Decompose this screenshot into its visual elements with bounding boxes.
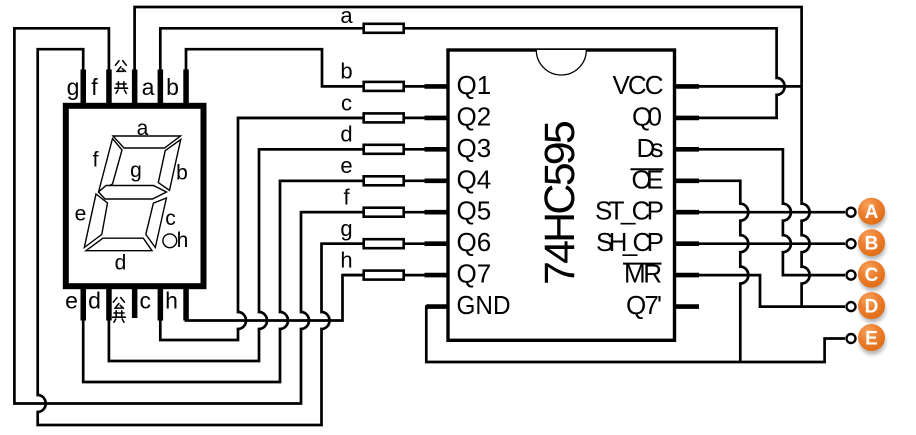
badge D bbox=[858, 292, 885, 319]
resistor leads left column bbox=[238, 118, 364, 275]
wire segment f : display pin f, left rail, bottom, up to resistor f bbox=[14, 28, 363, 403]
resistor a bbox=[364, 24, 404, 33]
resistor c bbox=[364, 113, 404, 122]
svg-text:h: h bbox=[165, 288, 178, 314]
badge E shadow bbox=[860, 329, 886, 355]
svg-text:SH_CP: SH_CP bbox=[596, 227, 664, 257]
svg-text:VCC: VCC bbox=[613, 70, 664, 100]
svg-text:Q6: Q6 bbox=[457, 227, 492, 257]
segment a bbox=[113, 136, 181, 148]
pin MR stub bbox=[676, 273, 700, 278]
svg-text:c: c bbox=[341, 90, 352, 115]
svg-text:Q1: Q1 bbox=[457, 70, 492, 100]
resistor g bbox=[364, 239, 404, 248]
display pin f (top) bbox=[106, 70, 112, 106]
display pin a (top) bbox=[158, 70, 164, 106]
svg-text:b: b bbox=[340, 59, 352, 84]
svg-text:Q0: Q0 bbox=[632, 101, 662, 131]
svg-text:E: E bbox=[865, 329, 878, 350]
svg-text:C: C bbox=[865, 265, 879, 286]
svg-text:e: e bbox=[340, 153, 352, 178]
pin Q6 stub bbox=[425, 241, 448, 246]
display pin b (top) bbox=[183, 70, 189, 106]
badge B shadow bbox=[860, 234, 886, 260]
pin Q7 stub bbox=[425, 273, 448, 278]
pin VCC stub bbox=[676, 84, 700, 89]
badge C shadow bbox=[860, 265, 886, 291]
display pin 公共 (top) bbox=[132, 70, 138, 106]
svg-text:ST_CP: ST_CP bbox=[595, 196, 664, 226]
overline OE bbox=[631, 168, 664, 170]
label 公 (bottom) bbox=[113, 298, 124, 309]
wire ST_CP pin to terminal A bbox=[697, 211, 845, 214]
svg-text:b: b bbox=[176, 162, 188, 185]
resistor h bbox=[364, 271, 404, 280]
segment f bbox=[99, 139, 122, 192]
pin GND stub bbox=[426, 304, 447, 309]
wire segment g : display pin g, left rail, bottom, up to resistor g bbox=[38, 49, 364, 425]
svg-text:b: b bbox=[166, 74, 179, 100]
terminal node B bbox=[847, 239, 856, 248]
terminal node E bbox=[847, 334, 856, 343]
wire segment b : display pin b to resistor b bbox=[186, 49, 364, 104]
svg-text:c: c bbox=[165, 207, 176, 230]
terminal node D bbox=[847, 302, 856, 311]
resistors a-h bodies bbox=[364, 24, 404, 280]
display pin g (top) bbox=[81, 70, 87, 106]
wire GND pin under IC to terminal E bbox=[426, 307, 845, 362]
display pin e (bottom) bbox=[81, 287, 87, 321]
terminal node A bbox=[847, 208, 856, 217]
pin SH_CP stub bbox=[676, 241, 700, 246]
svg-text:a: a bbox=[137, 117, 149, 140]
wire segment e : display pin e to resistor e bbox=[83, 181, 364, 382]
display pin 公共 (bottom, unconnected) bbox=[132, 287, 138, 318]
segment e bbox=[84, 194, 107, 248]
segment g bbox=[99, 186, 167, 200]
pin Q5 stub bbox=[425, 210, 448, 215]
svg-text:f: f bbox=[343, 185, 350, 210]
seven-segment display DS1 body bbox=[66, 106, 204, 286]
pin Q1 stub bbox=[425, 84, 448, 89]
wire OE pin down to GND rail bbox=[697, 181, 748, 362]
segment b bbox=[158, 140, 180, 191]
pin Q2 stub bbox=[425, 116, 448, 121]
svg-text:h: h bbox=[177, 229, 189, 252]
label 共 (top) bbox=[115, 82, 128, 94]
wire 公共(common) to VCC net : pin top, top rail, right vertical down to D row bbox=[135, 7, 810, 307]
resistor f bbox=[364, 208, 404, 217]
svg-text:D: D bbox=[865, 297, 879, 318]
svg-text:Q3: Q3 bbox=[457, 133, 492, 163]
svg-text:74HC595: 74HC595 bbox=[536, 121, 584, 285]
wire segment h : display pin h to resistor h bbox=[186, 275, 364, 320]
svg-text:a: a bbox=[340, 3, 353, 28]
pin ST_CP stub bbox=[676, 210, 700, 215]
badge E bbox=[858, 324, 885, 351]
wire SH_CP pin to terminal B bbox=[697, 242, 845, 245]
pin Q3 stub bbox=[425, 147, 448, 152]
display pin d (bottom) bbox=[106, 287, 112, 321]
resistor d bbox=[364, 145, 404, 154]
svg-text:h: h bbox=[340, 248, 352, 273]
svg-text:d: d bbox=[340, 122, 352, 147]
pin Q4 stub bbox=[425, 179, 448, 184]
badge A shadow bbox=[860, 202, 886, 228]
svg-text:Q5: Q5 bbox=[457, 196, 492, 226]
resistor b bbox=[364, 82, 404, 91]
badge A bbox=[858, 198, 885, 225]
badge C bbox=[858, 261, 885, 288]
display pin c (bottom) bbox=[158, 287, 164, 321]
segment d bbox=[86, 238, 152, 251]
wire segment c : display pin c to resistor c bbox=[160, 118, 363, 340]
resistor leads right column to IC stubs bbox=[405, 86, 428, 275]
segment c bbox=[146, 198, 167, 248]
label 公 (top) bbox=[115, 61, 126, 72]
svg-text:g: g bbox=[340, 216, 352, 241]
svg-text:f: f bbox=[93, 149, 99, 172]
svg-text:Q2: Q2 bbox=[457, 101, 492, 131]
svg-text:e: e bbox=[65, 288, 78, 314]
wire segment a : display pin a, resistor a, down to Q0 bbox=[160, 28, 784, 118]
svg-text:A: A bbox=[865, 202, 879, 223]
wire Ds pin to terminal C bbox=[697, 149, 845, 275]
segment h decimal point bbox=[163, 234, 177, 248]
pin OE stub bbox=[676, 179, 700, 184]
svg-text:a: a bbox=[142, 74, 155, 100]
wire segment d : display pin d to resistor d bbox=[109, 149, 364, 361]
pin Q0 stub bbox=[676, 116, 700, 121]
IC U1 74HC595 body bbox=[448, 50, 675, 340]
overline MR bbox=[623, 263, 662, 265]
resistor e bbox=[364, 176, 404, 185]
svg-text:c: c bbox=[139, 288, 151, 314]
wire MR pin to terminal D bbox=[697, 275, 845, 307]
svg-text:Q7': Q7' bbox=[626, 290, 662, 320]
terminal circles bbox=[847, 208, 856, 343]
svg-text:g: g bbox=[130, 159, 142, 182]
svg-text:B: B bbox=[865, 234, 879, 255]
svg-text:GND: GND bbox=[457, 290, 511, 320]
svg-text:d: d bbox=[115, 252, 127, 275]
badge D shadow bbox=[860, 297, 886, 323]
IC notch bbox=[536, 50, 586, 75]
terminal node C bbox=[847, 271, 856, 280]
svg-text:f: f bbox=[91, 74, 98, 100]
svg-text:d: d bbox=[88, 288, 101, 314]
pin Ds stub bbox=[676, 147, 700, 152]
svg-text:g: g bbox=[67, 74, 80, 100]
svg-text:Ds: Ds bbox=[637, 133, 664, 163]
svg-text:Q7: Q7 bbox=[457, 259, 492, 289]
label 共 (bottom) bbox=[113, 311, 126, 323]
wire VCC pin to common rail bbox=[697, 85, 802, 88]
svg-text:Q4: Q4 bbox=[457, 164, 492, 194]
svg-text:e: e bbox=[75, 203, 87, 226]
pin Q7' stub bbox=[676, 304, 700, 309]
display pin h (bottom) bbox=[183, 287, 189, 321]
badge B bbox=[858, 229, 885, 256]
